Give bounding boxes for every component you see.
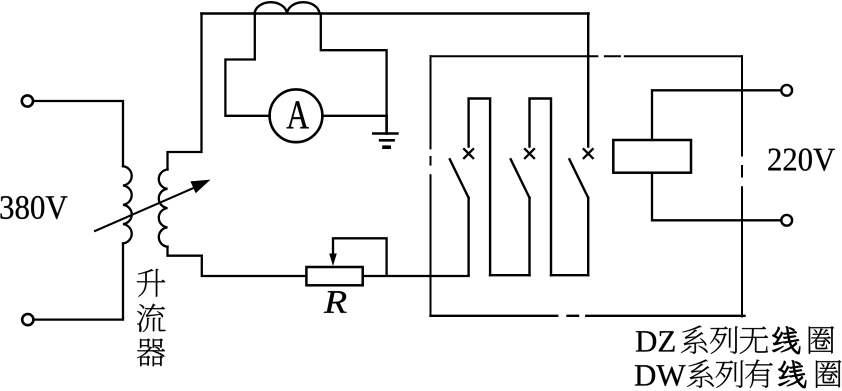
breaker contact K2 <box>511 99 551 276</box>
label DZ (series without coil) latin part <box>636 331 675 351</box>
breaker contact K3 <box>569 14 592 276</box>
breaker enclosure right edge (dash-dot) <box>741 56 743 316</box>
breaker contact K1 <box>450 99 490 276</box>
wire secondary top to top bus <box>168 14 202 170</box>
label DW (series with coil) latin part <box>635 365 686 386</box>
wire coil bottom to 220V terminal <box>652 173 781 221</box>
wire CT secondary right branch to ground junction <box>321 14 387 116</box>
wire ammeter to ground junction <box>322 115 386 117</box>
current transformer CT primary humps <box>255 2 320 13</box>
label 系列无线圈 <box>681 325 834 354</box>
rheostat R body <box>306 267 362 285</box>
transformer variable arrow <box>95 180 211 231</box>
wire CT secondary left branch to ammeter <box>225 14 269 116</box>
label R <box>324 291 347 313</box>
wire transformer primary bottom to J2 <box>34 243 123 319</box>
ammeter A <box>270 89 323 142</box>
terminal J3 (220V top) <box>781 85 792 96</box>
terminal J1 (380V top) <box>22 95 33 106</box>
terminal J4 (220V bottom) <box>781 215 792 226</box>
ground <box>373 116 397 147</box>
wire top bus <box>202 12 589 15</box>
label 380V <box>0 196 67 219</box>
breaker enclosure bottom edge (dash-dot) <box>431 315 745 317</box>
wire jumper K1 to K2 <box>490 274 529 276</box>
wire secondary bottom to rheostat <box>168 247 307 276</box>
transformer T1 secondary winding (right, bumps left) <box>159 170 168 247</box>
label 升流器 (step-up transformer) <box>137 269 166 366</box>
label 220V <box>768 148 835 170</box>
breaker enclosure top edge (dash-dot) <box>431 55 743 57</box>
wire J1 to transformer primary top <box>33 101 123 166</box>
transformer T1 primary winding (left, bumps right) <box>123 166 132 243</box>
wire coil top to 220V terminal <box>652 90 781 140</box>
wire rheostat to breaker contact K1 <box>363 275 469 277</box>
wire jumper K2 to K3 <box>551 274 588 276</box>
label 系列有线圈 <box>687 359 841 388</box>
breaker enclosure left edge (dash-dot) <box>430 56 432 316</box>
rheostat wiper arrow and tap wire <box>329 238 386 274</box>
relay trip coil <box>613 140 691 173</box>
terminal J2 (380V bottom) <box>22 314 33 325</box>
